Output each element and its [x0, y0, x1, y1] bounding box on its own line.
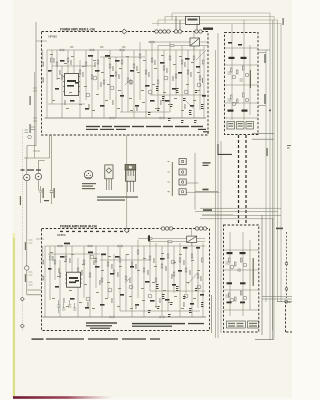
svg-text:NF950: NF950 — [49, 35, 58, 39]
svg-text:POWER AMPLIFIER (R-CH): POWER AMPLIFIER (R-CH) — [60, 224, 98, 228]
svg-text:NF850: NF850 — [57, 233, 66, 237]
svg-text:POWER AMPLIFIER (L-CH): POWER AMPLIFIER (L-CH) — [60, 28, 96, 32]
